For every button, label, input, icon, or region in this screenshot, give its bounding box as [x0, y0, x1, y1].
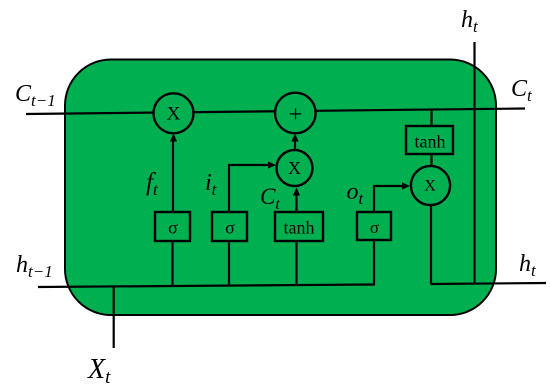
- svg-text:ht: ht: [461, 7, 479, 36]
- svg-text:ht−1: ht−1: [16, 252, 53, 281]
- svg-text:X: X: [167, 104, 181, 125]
- svg-text:Ct−1: Ct−1: [15, 81, 56, 110]
- svg-text:tanh: tanh: [284, 218, 315, 238]
- svg-text:σ: σ: [225, 218, 235, 238]
- svg-text:X: X: [424, 178, 436, 195]
- svg-text:+: +: [289, 101, 303, 128]
- svg-text:σ: σ: [168, 218, 178, 238]
- svg-text:ht: ht: [519, 251, 537, 280]
- svg-text:X: X: [288, 158, 301, 178]
- svg-text:σ: σ: [370, 218, 379, 237]
- svg-text:Ct: Ct: [511, 76, 533, 105]
- svg-text:tanh: tanh: [415, 132, 446, 152]
- svg-text:Xt: Xt: [87, 354, 111, 385]
